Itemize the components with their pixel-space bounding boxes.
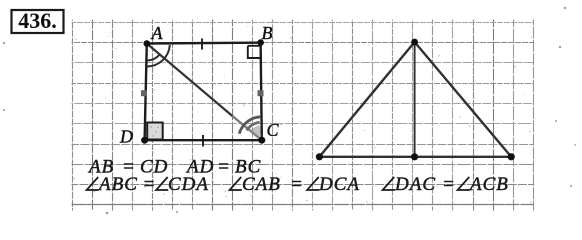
quadrilateral ABCD (145, 43, 262, 141)
angle arc C inner (ACB) (247, 122, 260, 130)
svg-text:CDA: CDA (168, 174, 209, 195)
svg-text:ABC: ABC (97, 174, 138, 195)
right angle square at B (248, 46, 260, 58)
square tick on BC (258, 90, 264, 96)
svg-text:DAC: DAC (394, 174, 436, 195)
svg-text:=: = (442, 174, 456, 195)
svg-text:B: B (262, 23, 273, 43)
angle C shaded wedge (250, 125, 262, 140)
angle arc C outer (gray) (239, 117, 260, 134)
triangle apex dot (411, 39, 418, 46)
right angle square at D (shaded) (147, 123, 163, 140)
vertex dot C (258, 137, 265, 144)
vertex dot A (144, 40, 151, 47)
angle arc A outer (147, 45, 170, 67)
svg-text:=: = (217, 157, 231, 178)
side AB (147, 41, 261, 44)
triangle sides (319, 42, 511, 157)
triangle base-midpoint dot (411, 153, 418, 160)
svg-text:ACB: ACB (468, 174, 509, 195)
svg-text:436.: 436. (18, 8, 57, 33)
svg-text:A: A (151, 23, 164, 43)
svg-text:DCA: DCA (318, 174, 360, 195)
equality text line 2 (97, 174, 509, 195)
svg-text:=: = (143, 174, 157, 195)
svg-text:CAB: CAB (242, 174, 281, 195)
angle arc A inner (DAC) (147, 54, 160, 60)
triangle base-left dot (316, 153, 323, 160)
problem number box 436. (12, 8, 64, 33)
triangle base-right dot (508, 153, 515, 160)
graph paper grid (72, 20, 534, 211)
tick on AB midpoint (201, 39, 203, 50)
angle symbols line 2 (87, 177, 470, 190)
side DC (145, 139, 262, 141)
vertex labels A B C D (119, 23, 280, 147)
svg-text:C: C (267, 120, 280, 140)
diagonal AC gray half (233, 117, 262, 141)
vertex dot D (141, 137, 148, 144)
side BC (261, 43, 262, 141)
square tick on AD (141, 90, 147, 96)
tick on DC midpoint (202, 135, 204, 147)
diagonal AC dark half (147, 44, 233, 117)
svg-text:=: = (290, 174, 304, 195)
side AD (145, 44, 147, 141)
hatch dots inside D square (150, 126, 152, 128)
svg-text:D: D (119, 127, 133, 147)
equality text line 1 (87, 157, 261, 178)
vertex dot B (257, 39, 264, 46)
